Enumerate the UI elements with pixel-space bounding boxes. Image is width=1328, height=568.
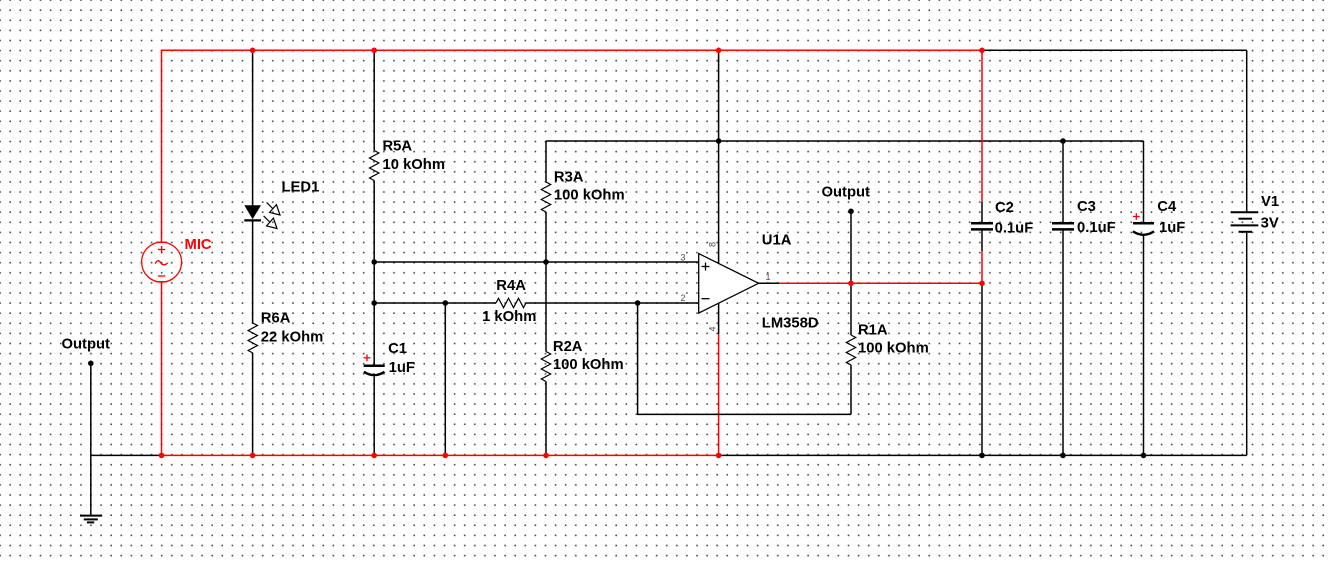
- junction bottom rail at x445: [443, 453, 449, 459]
- wire op-amp output stub: [759, 282, 779, 284]
- junction pin2 wire at R5A branch: [371, 300, 377, 306]
- wire ground drop at x445: [444, 303, 446, 455]
- resistor R1A: [846, 323, 928, 366]
- wire output net red: [779, 282, 982, 284]
- junction output net at C2: [979, 281, 985, 287]
- svg-text:0.1uF: 0.1uF: [995, 221, 1034, 237]
- junction pin2 wire at x445: [443, 300, 449, 306]
- wire op-amp pin8 vertical: [718, 50, 720, 263]
- junction top rail at LED branch: [250, 48, 256, 54]
- junction bottom rail at pin4: [716, 453, 722, 459]
- wire bottom rail black right segment: [719, 454, 1247, 456]
- junction y141 at pin8: [716, 138, 722, 144]
- op-amp U1A: [681, 233, 819, 332]
- wire LED R6A branch vertical: [252, 50, 254, 455]
- svg-text:100 kOhm: 100 kOhm: [553, 357, 624, 373]
- svg-text:Output: Output: [62, 337, 111, 353]
- wire V+ distribution horizontal y141: [546, 140, 1144, 142]
- junction bottom rail at R2A: [543, 453, 549, 459]
- wire op-amp pin2 input right of R4A: [526, 302, 699, 304]
- wire R5A C1 branch vertical: [373, 50, 375, 455]
- svg-text:R5A: R5A: [383, 139, 413, 155]
- capacitor C1: [364, 341, 415, 376]
- wire op-amp pin4 stub: [718, 303, 720, 334]
- LED emission arrow 1: [267, 202, 280, 215]
- svg-text:1uF: 1uF: [1159, 220, 1185, 236]
- junction pin3 wire at R5A branch: [371, 259, 377, 265]
- svg-text:C2: C2: [995, 200, 1014, 216]
- junction bottom rail at C3: [1060, 453, 1066, 459]
- junction bottom rail at C2: [979, 453, 985, 459]
- junction bottom rail at MIC: [159, 453, 165, 459]
- svg-text:3V: 3V: [1261, 216, 1279, 232]
- svg-text:22 kOhm: 22 kOhm: [261, 330, 324, 346]
- svg-text:MIC: MIC: [185, 237, 212, 253]
- wire op-amp pin3 input: [374, 261, 699, 263]
- wire bottom rail red segment: [162, 454, 719, 456]
- svg-text:1 kOhm: 1 kOhm: [482, 309, 536, 325]
- svg-text:R1A: R1A: [858, 323, 888, 339]
- wire C2 red lower to output net: [981, 251, 983, 283]
- svg-text:8: 8: [708, 242, 718, 247]
- resistor R4A: [482, 278, 536, 325]
- svg-text:LM358D: LM358D: [762, 316, 819, 332]
- wire feedback bottom: [638, 303, 851, 414]
- svg-text:100 kOhm: 100 kOhm: [554, 188, 625, 204]
- svg-text:2: 2: [681, 293, 686, 303]
- wire C2 stub upper: [981, 202, 983, 222]
- svg-text:C1: C1: [388, 341, 407, 357]
- node Output right: [822, 185, 871, 215]
- svg-text:R4A: R4A: [496, 278, 526, 294]
- svg-text:100 kOhm: 100 kOhm: [858, 341, 929, 357]
- wire top power rail black segment: [982, 49, 1247, 51]
- svg-text:C3: C3: [1077, 199, 1096, 215]
- junction bottom rail at LED branch: [250, 453, 256, 459]
- svg-text:1uF: 1uF: [389, 360, 415, 376]
- capacitor C3: [1052, 199, 1116, 236]
- junction output net at R1A: [848, 281, 854, 287]
- svg-text:R2A: R2A: [553, 339, 583, 355]
- wire R1A branch vertical: [850, 283, 852, 414]
- svg-text:LED1: LED1: [282, 180, 320, 196]
- wire output node stub right: [850, 211, 852, 283]
- wire C4 branch vertical: [1143, 141, 1145, 455]
- microphone MIC: [142, 242, 182, 282]
- wire C2 branch red upper: [981, 50, 983, 202]
- wire C2 stub lower: [981, 231, 983, 252]
- svg-text:R3A: R3A: [554, 170, 584, 186]
- LED LED1: [244, 180, 319, 229]
- svg-text:0.1uF: 0.1uF: [1077, 220, 1116, 236]
- resistor R2A: [541, 339, 623, 382]
- capacitor C4: [1133, 199, 1185, 236]
- junction pin2 wire at feedback: [635, 300, 641, 306]
- svg-text:Output: Output: [822, 185, 871, 201]
- capacitor C2: [971, 200, 1033, 237]
- wire bottom rail black left: [91, 454, 162, 456]
- svg-text:4: 4: [708, 326, 718, 331]
- svg-text:1: 1: [766, 272, 771, 282]
- junction y141 at C3: [1060, 138, 1066, 144]
- svg-text:U1A: U1A: [762, 233, 792, 249]
- LED emission arrow 2: [264, 216, 277, 229]
- wire op-amp pin2 input left of R4A: [374, 302, 496, 304]
- ground: [80, 516, 102, 523]
- wire ground stem: [90, 455, 92, 515]
- wire top power rail red segment: [162, 49, 983, 51]
- resistor R3A: [541, 170, 624, 213]
- junction bottom rail at C1: [371, 453, 377, 459]
- svg-text:3: 3: [681, 253, 686, 263]
- junction top rail at R5A branch: [371, 48, 377, 54]
- junction top rail at pin8: [716, 48, 722, 54]
- battery V1: [1231, 212, 1259, 232]
- resistor R6A: [248, 311, 323, 354]
- wire output node left drop: [90, 363, 92, 455]
- node Output left: [62, 337, 111, 367]
- wire V1 branch vertical: [1246, 50, 1248, 455]
- wire op-amp pin4 to ground rail red: [718, 334, 720, 455]
- resistor R5A: [370, 139, 446, 181]
- junction bottom rail at C4: [1141, 453, 1147, 459]
- wire C3 branch vertical: [1062, 141, 1064, 455]
- svg-text:C4: C4: [1157, 199, 1177, 215]
- wire left vertical MIC branch upper: [161, 50, 163, 243]
- wire left vertical MIC branch lower: [161, 282, 163, 456]
- svg-text:V1: V1: [1261, 194, 1279, 210]
- svg-text:10 kOhm: 10 kOhm: [383, 157, 446, 173]
- junction top rail at C2: [979, 48, 985, 54]
- wire C2 branch black to ground: [981, 283, 983, 455]
- svg-text:R6A: R6A: [261, 311, 291, 327]
- junction pin3 wire at R3A: [543, 259, 549, 265]
- wire R3A R2A branch vertical: [545, 141, 547, 455]
